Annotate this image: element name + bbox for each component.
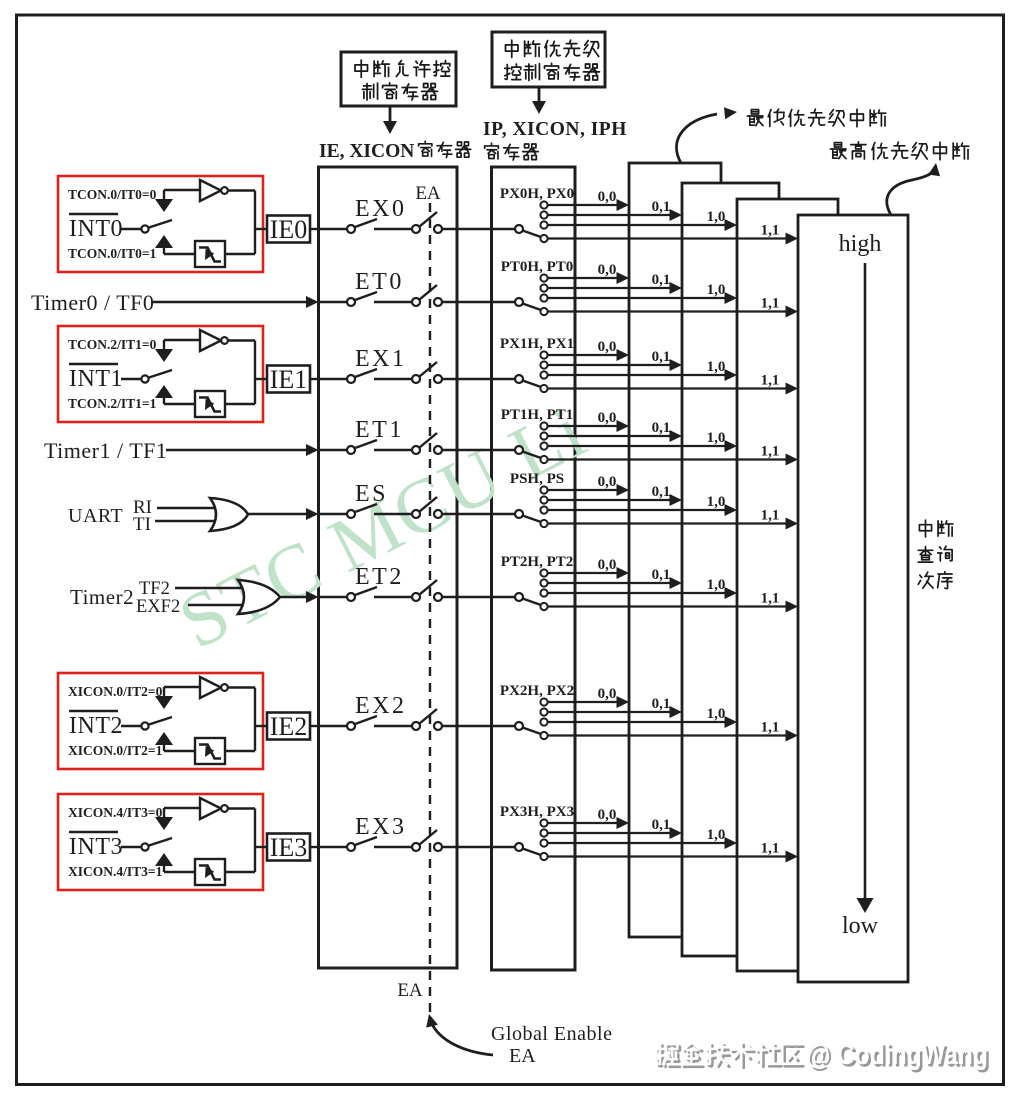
arrow header to IE register [389,106,392,122]
switch EX1 [374,378,412,380]
arrow global enable EA [432,1024,493,1055]
svg-text:@ CodingWang: @ CodingWang [806,1038,988,1070]
priority line 0,0 row EX3 [548,822,619,824]
wire EX1 to priority selector [442,378,515,380]
svg-text:ET1: ET1 [355,417,404,443]
svg-text:UART: UART [68,505,123,527]
priority line 0,1 row ET0 [548,287,672,289]
wire row ES into IE box [319,513,348,515]
switch ET0 [374,301,412,303]
svg-text:0,0: 0,0 [598,686,617,702]
priority line 0,0 row EX1 [548,354,619,356]
wire IE3 to IE register [310,846,319,848]
flag box IE3 [267,834,310,861]
svg-text:1,0: 1,0 [707,282,726,298]
arrow lowest priority [676,114,717,163]
wire EXF2 [188,604,244,606]
flag box IE0 [267,216,310,243]
priority selector EX0 [515,225,523,233]
switch ET2 [374,596,412,598]
priority line 0,0 row ES [548,489,619,491]
IP/XICON/IPH priority register box [492,167,576,970]
svg-text:1,0: 1,0 [707,827,726,843]
svg-text:1,1: 1,1 [761,373,780,389]
switch EA row EX0 [412,225,420,233]
edge detector INT3 [195,859,225,885]
svg-text:0,1: 0,1 [652,567,671,583]
svg-text:IE0: IE0 [270,215,308,244]
or-gate UART [210,498,248,531]
priority selector EX1 [515,375,523,383]
priority level box 1,0 [737,199,838,971]
svg-text:INT0: INT0 [69,216,123,242]
svg-text:INT1: INT1 [69,366,123,392]
flag box IE2 [267,713,310,740]
switch EA row ET0 [412,298,420,306]
svg-text:0,0: 0,0 [598,262,617,278]
switch EA row EX2 [412,722,420,730]
wire ES to priority selector [442,513,515,515]
label highest priority interrupt [830,143,846,159]
edge path wire INT3 [155,853,173,866]
svg-text:Timer2: Timer2 [70,585,134,609]
svg-text:0,0: 0,0 [598,807,617,823]
svg-text:PSH, PS: PSH, PS [510,471,564,487]
inverter INT3 [200,798,221,819]
svg-text:IE2: IE2 [270,712,308,741]
svg-text:INT3: INT3 [69,834,123,860]
svg-text:EXF2: EXF2 [136,597,180,617]
wire INT3 outputs join [228,807,255,809]
svg-text:0,1: 0,1 [652,199,671,215]
or-gate Timer2 [238,580,280,614]
wire row EX2 into IE box [319,725,348,727]
svg-text:1,0: 1,0 [707,359,726,375]
switch EX3 [374,846,412,848]
svg-text:PT0H, PT0: PT0H, PT0 [501,259,574,275]
svg-text:XICON.4/IT3=0: XICON.4/IT3=0 [68,805,163,820]
svg-text:IE1: IE1 [270,365,308,394]
wire Timer1 TF1 [166,449,308,451]
priority selector EX2 [515,722,523,730]
wire TI [155,520,216,522]
svg-text:1,1: 1,1 [761,223,780,239]
switch EA row ET1 [412,446,420,454]
switch EX2 [374,725,412,727]
svg-text:0,0: 0,0 [598,410,617,426]
svg-text:0,0: 0,0 [598,189,617,205]
wire IE2 to IE register [310,725,319,727]
wire ET2 to priority selector [442,596,515,598]
wire row EX0 into IE box [319,228,348,230]
priority selector ET2 [515,593,523,601]
priority line 1,0 row EX2 [548,721,727,723]
svg-text:1,0: 1,0 [707,706,726,722]
priority line 1,0 row EX0 [548,224,727,226]
switch EA row ES [412,510,420,518]
svg-text:ET0: ET0 [355,269,404,295]
svg-text:IE3: IE3 [270,833,308,862]
priority selector ET0 [515,298,523,306]
watermark STC MCU [166,387,600,665]
priority line 1,1 row ET2 [548,605,788,607]
svg-text:1,0: 1,0 [707,430,726,446]
priority line 0,0 row EX2 [548,701,619,703]
svg-text:high: high [839,231,882,257]
flag box IE1 [267,366,310,393]
label interrupt polling order [919,520,931,537]
svg-text:XICON.4/IT3=1: XICON.4/IT3=1 [68,864,163,879]
wire EX3 to priority selector [442,846,515,848]
switch INT0 trigger select [141,225,148,232]
wire row ET2 into IE box [319,596,348,598]
priority level box 0,1 [682,183,779,956]
EA global enable dashed line [429,203,431,1012]
svg-text:low: low [842,913,879,939]
wire RI [157,507,216,509]
svg-text:PT1H, PT1: PT1H, PT1 [501,407,574,423]
wire INT2 outputs join [228,686,255,688]
priority line 1,0 row ES [548,509,727,511]
svg-text:IE, XICON: IE, XICON [319,141,414,162]
svg-text:0,1: 0,1 [652,817,671,833]
svg-text:EA: EA [415,183,441,204]
svg-text:PX2H, PX2: PX2H, PX2 [500,683,574,699]
wire EX2 to priority selector [442,725,515,727]
svg-text:IP, XICON, IPH: IP, XICON, IPH [483,119,627,140]
input block INT2 red box [58,673,263,769]
wire INT0 outputs join [228,189,255,191]
priority selector ES [515,510,523,518]
svg-text:EX3: EX3 [355,814,407,840]
switch INT1 trigger select [141,375,148,382]
svg-text:1,1: 1,1 [761,508,780,524]
level path wire INT1 [164,339,200,341]
priority line 1,1 row EX1 [548,387,788,389]
watermark juejin community CodingWang [659,1041,991,1073]
priority line 1,0 row ET2 [548,592,727,594]
priority line 0,1 row EX1 [548,364,672,366]
priority line 0,1 row ET2 [548,582,672,584]
svg-text:1,1: 1,1 [761,296,780,312]
svg-text:TF2: TF2 [139,579,170,599]
svg-text:TCON.0/IT0=1: TCON.0/IT0=1 [68,246,157,261]
wire INT1 to switch [121,378,141,380]
svg-text:EX2: EX2 [355,693,407,719]
wire row ET1 into IE box [319,449,348,451]
priority line 0,1 row EX3 [548,832,672,834]
level path wire INT3 [164,807,200,809]
svg-text:EX0: EX0 [355,196,407,222]
svg-text:0,0: 0,0 [598,474,617,490]
edge path wire INT2 [155,732,173,745]
svg-text:PX0H, PX0: PX0H, PX0 [500,186,574,202]
svg-text:PT2H, PT2: PT2H, PT2 [501,554,574,570]
wire row ET0 into IE box [319,301,348,303]
priority line 1,1 row EX0 [548,237,788,239]
svg-text:1,0: 1,0 [707,494,726,510]
label lowest priority interrupt [747,110,763,126]
wire INT1 outputs join [228,339,255,341]
switch ET1 [374,449,412,451]
priority line 1,1 row ET0 [548,310,788,312]
switch ES [374,513,412,515]
priority selector ET1 [515,446,523,454]
wire EX0 to priority selector [442,228,515,230]
edge path wire INT0 [155,235,173,248]
input block INT3 red box [58,794,263,890]
switch INT2 trigger select [141,722,148,729]
IE/XICON enable register box [319,167,458,968]
switch EX0 [374,228,412,230]
svg-text:PX1H, PX1: PX1H, PX1 [500,336,574,352]
svg-text:1,1: 1,1 [761,591,780,607]
priority line 0,0 row ET1 [548,425,619,427]
priority line 0,1 row ES [548,499,672,501]
inverter INT0 [200,180,221,201]
svg-text:1,1: 1,1 [761,841,780,857]
wire ET1 to priority selector [442,449,515,451]
svg-text:Timer0 / TF0: Timer0 / TF0 [31,290,154,315]
priority line 0,0 row ET2 [548,572,619,574]
svg-text:XICON.0/IT2=1: XICON.0/IT2=1 [68,743,163,758]
priority line 1,0 row ET1 [548,445,727,447]
priority line 1,1 row EX2 [548,734,788,736]
svg-text:0,0: 0,0 [598,339,617,355]
wire ET0 to priority selector [442,301,515,303]
svg-text:1,0: 1,0 [707,209,726,225]
arrow header to IP register [538,87,541,101]
wire INT3 to switch [121,846,141,848]
svg-text:1,1: 1,1 [761,720,780,736]
priority line 1,0 row ET0 [548,297,727,299]
svg-text:EX1: EX1 [355,346,407,372]
svg-text:PX3H, PX3: PX3H, PX3 [500,804,574,820]
svg-text:0,1: 0,1 [652,420,671,436]
priority line 0,1 row ET1 [548,435,672,437]
priority line 1,1 row ET1 [548,458,788,460]
header box interrupt enable register [341,52,456,106]
svg-text:TCON.0/IT0=0: TCON.0/IT0=0 [68,187,157,202]
svg-text:TCON.2/IT1=0: TCON.2/IT1=0 [68,337,157,352]
priority selector EX3 [515,843,523,851]
wire row EX3 into IE box [319,846,348,848]
wire IE0 to IE register [310,228,319,230]
inverter INT1 [200,330,221,351]
svg-text:EA: EA [509,1045,536,1067]
priority line 1,1 row ES [548,522,788,524]
wire Timer0 TF0 [153,301,308,303]
switch EA row EX3 [412,843,420,851]
input block INT0 red box [58,176,263,272]
priority line 1,0 row EX3 [548,842,727,844]
priority level box 0,0 [629,163,721,937]
svg-text:0,1: 0,1 [652,349,671,365]
svg-text:ES: ES [355,481,388,507]
priority line 0,1 row EX0 [548,214,672,216]
edge detector INT0 [195,241,225,267]
svg-text:ET2: ET2 [355,564,404,590]
priority line 1,1 row EX3 [548,855,788,857]
svg-text:1,0: 1,0 [707,577,726,593]
level path wire INT0 [164,189,200,191]
switch INT3 trigger select [141,843,148,850]
priority line 0,1 row EX2 [548,711,672,713]
wire Timer2 to ET2 [280,596,308,598]
input block INT1 red box [58,326,263,422]
polling order arrow [864,263,867,900]
switch EA row ET2 [412,593,420,601]
svg-text:EA: EA [397,980,423,1001]
svg-text:Timer1 / TF1: Timer1 / TF1 [44,438,167,463]
svg-text:0,1: 0,1 [652,484,671,500]
svg-text:INT2: INT2 [69,713,123,739]
arrow highest priority [887,170,934,215]
svg-text:0,1: 0,1 [652,696,671,712]
wire IE1 to IE register [310,378,319,380]
svg-text:XICON.0/IT2=0: XICON.0/IT2=0 [68,684,163,699]
edge detector INT1 [195,391,225,417]
priority line 0,0 row ET0 [548,277,619,279]
switch EA row EX1 [412,375,420,383]
priority line 1,0 row EX1 [548,374,727,376]
priority queue box high-low [798,215,908,982]
svg-text:TI: TI [133,514,151,535]
inverter INT2 [200,677,221,698]
priority line 0,0 row EX0 [548,204,619,206]
svg-text:Global Enable: Global Enable [491,1023,612,1045]
wire INT0 to switch [121,228,141,230]
edge path wire INT1 [155,385,173,398]
level path wire INT2 [164,686,200,688]
wire TF2 [175,587,244,589]
svg-text:TCON.2/IT1=1: TCON.2/IT1=1 [68,396,157,411]
wire row EX1 into IE box [319,378,348,380]
wire INT2 to switch [121,725,141,727]
edge detector INT2 [195,738,225,764]
wire UART to ES [248,513,308,515]
svg-text:0,0: 0,0 [598,557,617,573]
svg-text:0,1: 0,1 [652,272,671,288]
header box interrupt priority register [492,32,605,87]
svg-text:1,1: 1,1 [761,444,780,460]
